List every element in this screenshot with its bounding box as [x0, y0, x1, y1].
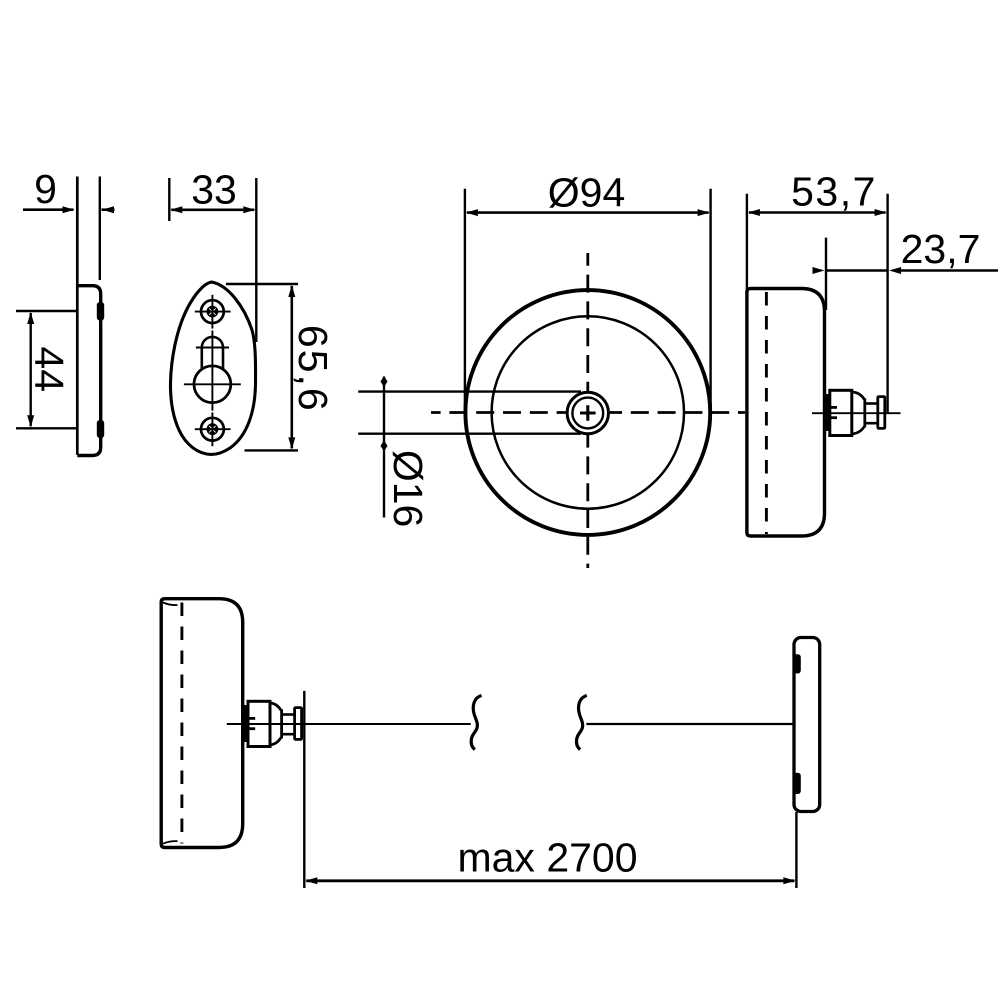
dim max2700 line	[306, 879, 794, 882]
dim 65,6 bottom extension line	[245, 449, 299, 451]
nozzle neck (plan)	[283, 713, 295, 716]
dim 23,7 line between extensions	[826, 269, 888, 272]
nozzle collar tabs	[827, 406, 837, 409]
nozzle block	[830, 390, 852, 435]
dimension 9 right arrowhead	[102, 206, 114, 213]
dim 44 top arrowhead	[27, 312, 34, 324]
svg-text:65,6: 65,6	[290, 325, 336, 413]
dim 44 bottom arrowhead	[27, 415, 34, 427]
dim 33 left arrowhead	[170, 206, 182, 213]
inner circle	[492, 316, 684, 508]
nozzle block (plan)	[248, 701, 270, 746]
nozzle neck top and bottom	[866, 402, 878, 405]
dim max2700 left extension line	[303, 691, 305, 888]
bottom screw head (phillips)	[207, 423, 219, 435]
hub outer circle	[567, 392, 608, 433]
nozzle centerline	[812, 412, 901, 414]
housing body outline (plan)	[161, 599, 243, 848]
svg-text:max 2700: max 2700	[457, 834, 637, 880]
dim 65,6 vertical line	[290, 286, 293, 448]
dim max2700 left arrowhead	[305, 877, 317, 884]
end hook plate	[794, 638, 820, 812]
dim Ø94 line	[467, 211, 709, 214]
vertical dashed centerline bottom part	[586, 435, 589, 568]
dim Ø94 right extension line	[709, 189, 711, 412]
dim Ø16 top tangent line	[358, 390, 581, 392]
nozzle end cap	[878, 397, 885, 429]
dim max2700 right arrowhead	[783, 877, 795, 884]
cord centerline through nozzle	[227, 723, 471, 725]
keyhole circle	[194, 366, 231, 403]
horizontal dashed centerline left part	[431, 411, 566, 414]
nozzle bell top	[852, 392, 865, 399]
svg-text:23,7: 23,7	[901, 226, 981, 272]
svg-text:33: 33	[191, 166, 237, 212]
dim 44 top extension line	[16, 310, 77, 312]
svg-text:Ø16: Ø16	[385, 450, 431, 527]
bottom screw outer circle	[201, 418, 224, 441]
oval plate outline (egg shaped)	[170, 282, 255, 455]
dim 53,7 right arrowhead	[875, 209, 887, 216]
nozzle collar dark band (side view)	[823, 394, 829, 431]
nozzle bell bar (plan)	[280, 709, 283, 738]
inner face tick top	[163, 603, 178, 606]
dim 53,7 line	[749, 211, 886, 214]
horizontal dashed centerline right part	[610, 411, 745, 414]
svg-text:Ø94: Ø94	[548, 170, 626, 216]
wall line / left extension of dim 9	[76, 177, 79, 455]
dim 44 vertical line	[30, 313, 32, 426]
dim 33 right extension line	[255, 178, 257, 342]
dim Ø16 vertical line	[383, 377, 385, 518]
dashed mounting plate line inside body (plan)	[180, 603, 183, 844]
dim max2700 right extension line	[795, 812, 797, 888]
dim Ø16 top kite arrowhead	[381, 376, 388, 387]
dimension 9 line right part	[102, 208, 115, 211]
dim 53,7 left arrowhead	[748, 209, 760, 216]
dim 65,6 top extension line	[226, 283, 298, 285]
hub plus mark	[580, 405, 596, 421]
right extension line of dim 9	[99, 177, 101, 281]
svg-text:53,7: 53,7	[791, 169, 877, 215]
nozzle end cap (plan)	[295, 708, 302, 740]
body left edge extension above	[746, 194, 748, 290]
dim Ø94 left extension line	[464, 189, 466, 412]
vertical dashed centerline top part	[586, 253, 589, 391]
cord break symbol 1	[471, 696, 481, 750]
hook plate bump bottom	[794, 773, 801, 794]
nozzle bell top (plan)	[270, 703, 281, 710]
dashed mounting plate line inside body	[765, 292, 768, 534]
cord break symbol 2	[576, 696, 586, 750]
dim Ø16 bottom tangent line	[358, 433, 581, 435]
dim 23,7 left arrowhead (outside pointing right)	[813, 267, 825, 274]
hub inner circle	[572, 398, 603, 429]
keyhole slot centerline horizontal	[196, 347, 229, 349]
dim 53,7 right extension line	[886, 194, 888, 413]
inner face tick bottom	[163, 841, 178, 844]
dim Ø94 right arrowhead	[698, 209, 710, 216]
top screw crosshair	[195, 311, 231, 313]
svg-text:44: 44	[26, 346, 72, 392]
keyhole vertical centerline	[211, 331, 213, 411]
dim 65,6 top arrowhead	[288, 285, 295, 297]
top screw head (phillips)	[207, 306, 219, 318]
dim Ø94 left arrowhead	[466, 209, 478, 216]
hook plate bump top	[794, 654, 801, 673]
top screw outer circle	[201, 300, 224, 323]
nozzle bell bottom	[852, 426, 865, 433]
keyhole slot	[202, 337, 223, 369]
nozzle bell bar	[863, 398, 866, 427]
dim 44 bottom extension line	[16, 427, 77, 429]
dim 33 left extension line	[168, 178, 170, 221]
dim 33 right arrowhead	[243, 206, 255, 213]
nozzle collar dark band (plan)	[242, 705, 248, 742]
dim 23,7 right arrowhead (outside pointing left) with tail	[889, 267, 901, 274]
dim 65,6 bottom arrowhead	[288, 437, 295, 449]
bottom screw crosshair	[195, 428, 231, 430]
plate bump top (screw boss edge-on)	[97, 302, 104, 321]
dimension 9 left arrowhead	[63, 206, 75, 213]
plate outline (side)	[77, 286, 100, 456]
plate bump bottom (screw boss edge-on)	[97, 420, 104, 438]
dim 33 line	[171, 209, 254, 212]
svg-text:9: 9	[34, 166, 57, 212]
keyhole circle centerline horizontal	[184, 383, 241, 385]
outer circle	[465, 290, 710, 535]
nozzle collar tabs (plan)	[245, 717, 255, 720]
dim Ø16 bottom kite arrowhead	[381, 440, 388, 451]
nozzle bell bottom (plan)	[270, 737, 281, 744]
housing body outline	[747, 289, 825, 537]
dimension 9 line left part	[23, 208, 74, 211]
cord line right segment	[586, 723, 795, 725]
dim 23,7 left extension line	[825, 238, 827, 310]
